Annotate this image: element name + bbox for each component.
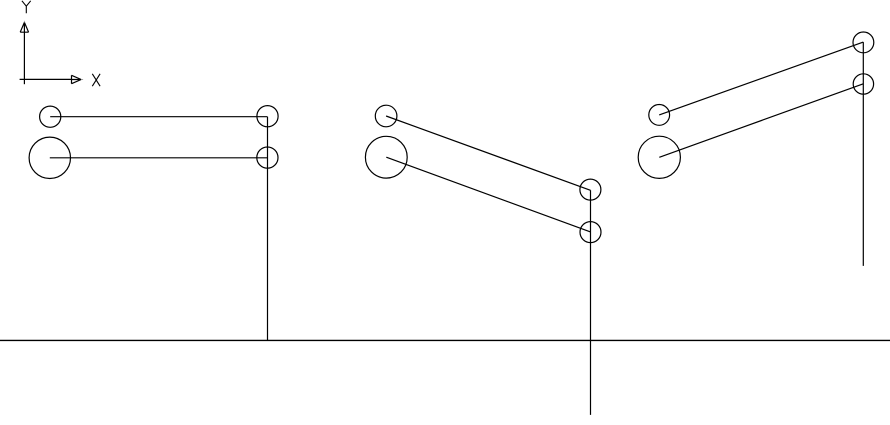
linkage position 3 : upper joint circle [853, 32, 874, 53]
linkage position 2 : lower joint circle [580, 222, 601, 243]
linkage position 3 : lower link [659, 84, 863, 158]
linkage position 3 : upper link [659, 42, 863, 115]
linkage position 3 : slider guide line [862, 42, 864, 266]
linkage position 3 : crank pivot circle [638, 136, 680, 178]
linkage position 1 : upper pivot circle [40, 106, 61, 127]
linkage position 2 : lower link [386, 157, 590, 232]
linkage position 1 : upper link [50, 116, 267, 118]
linkage position 2 : crank pivot circle [365, 136, 407, 178]
linkage position 1 : lower joint circle [257, 147, 278, 168]
linkage position 2 : upper pivot circle [375, 105, 397, 127]
axis Y arrowhead [20, 21, 28, 32]
linkage position 3 : lower joint circle [853, 74, 873, 94]
linkage position 1 : lower link [50, 157, 268, 159]
linkage position 1 : crank pivot circle [29, 137, 70, 178]
linkage position 1 : upper joint circle [257, 106, 278, 127]
axis Y line [23, 32, 25, 84]
linkage position 2 : slider guide line [590, 190, 592, 415]
axis X arrowhead [72, 75, 84, 83]
ground line [0, 339, 890, 341]
axis X line [20, 78, 72, 80]
linkage position 3 : upper pivot circle [649, 105, 670, 126]
axis X label [92, 74, 100, 86]
axis Y label [22, 1, 31, 14]
linkage position 1 : slider guide line [267, 117, 269, 341]
linkage position 2 : upper joint circle [580, 179, 601, 200]
linkage position 2 : upper link [386, 116, 590, 190]
